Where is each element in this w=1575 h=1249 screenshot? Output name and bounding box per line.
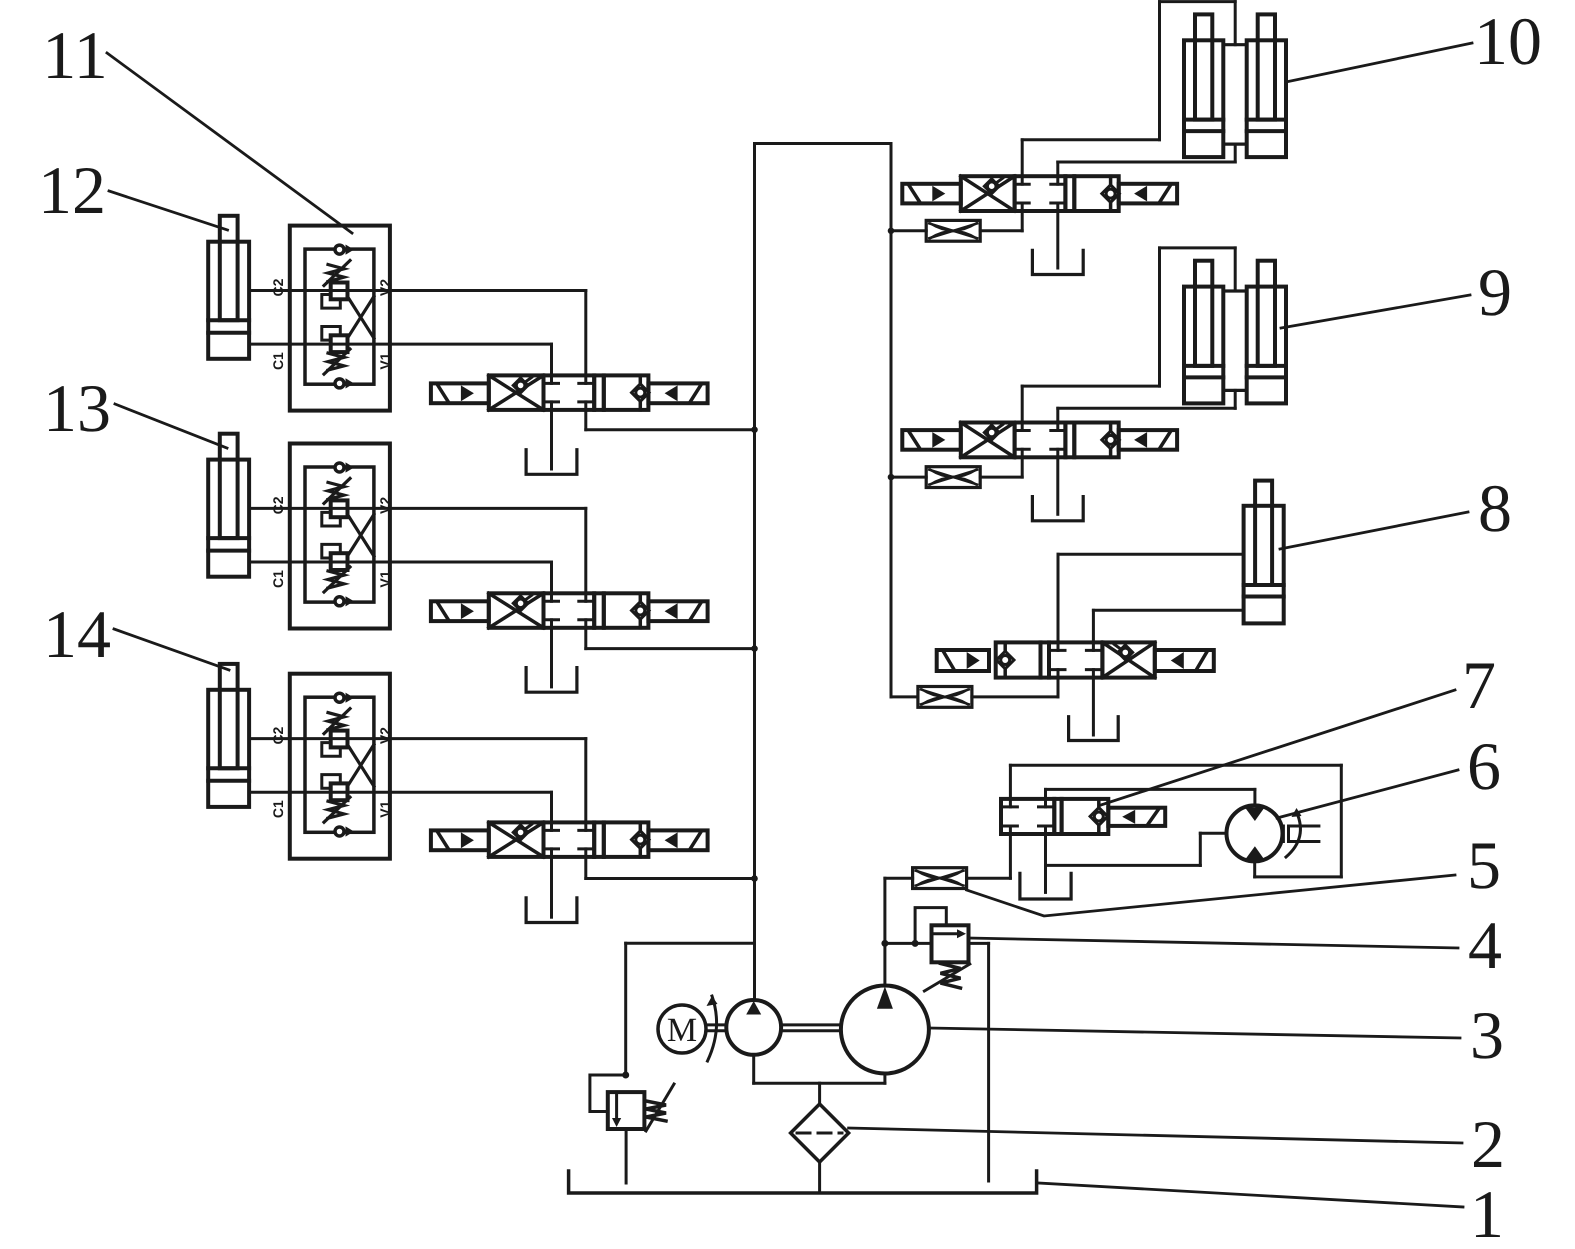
svg-text:4: 4 [1468,907,1502,983]
leader 8 [1280,512,1468,549]
throttle check valve (group 10) [926,220,980,241]
label 1 [1470,1176,1504,1249]
system relief valve (left) [590,1072,674,1183]
solenoid valve (label 7) [1001,799,1165,834]
svg-text:C2: C2 [270,726,286,744]
line B valve 8 to cylinder [1093,610,1243,642]
solenoid directional valve (group 9) [902,423,1177,458]
valve 9 tank drop [1056,457,1059,514]
V2 line to valve (group 14) [390,739,586,823]
leader 13 [115,404,227,448]
svg-text:V1: V1 [377,800,393,817]
line A valve 8 to cylinder [1058,554,1244,642]
pump P2 (label 3) [841,986,929,1074]
V2 line to valve (group 13) [390,508,586,593]
label 2 [1471,1106,1505,1182]
line A valve-to-cylinders (group 10) [1022,2,1235,177]
relief return line [969,943,989,1181]
block internal C2 line [290,289,390,292]
svg-text:V2: V2 [377,279,393,296]
svg-text:C1: C1 [270,800,286,818]
valve 8 tank symbol [1069,717,1119,741]
svg-text:C1: C1 [270,570,286,588]
C2 line (group 13) [249,507,290,510]
V1 line to valve (group 13) [390,562,552,593]
valve tank symbol (group 13) [526,668,577,693]
counterbalance valve block (group 14) [270,674,393,859]
motor loop frame [1010,765,1341,877]
double hoist cylinder (label 10) [1184,14,1286,157]
C1 line (group 14) [249,791,290,794]
svg-text:8: 8 [1478,470,1512,546]
motor drain line [1046,833,1227,865]
leader 11 [107,53,352,233]
valve 7 tank symbol [1020,873,1071,899]
solenoid directional valve (group 10) [902,176,1177,211]
C2 line (group 14) [249,737,290,740]
valve 8 tank drop [1092,678,1095,735]
solenoid directional valve (group 13) [431,593,708,628]
label 8 [1478,470,1512,546]
leader 4 [969,938,1459,948]
cylinder (group 14) [208,664,249,807]
leader 14 [114,629,229,670]
manifold line with throttle (group 9) [891,457,1022,477]
V2 line to valve (group 11/12) [390,291,586,376]
throttle check valve (group 8) [918,687,972,708]
svg-text:13: 13 [43,370,111,446]
label 5 [1467,827,1501,903]
svg-text:M: M [667,1012,697,1049]
svg-text:5: 5 [1467,827,1501,903]
valve to manifold line (group 13) [586,628,755,649]
label 12 [38,152,106,228]
counterbalance valve block (group 11/12) [270,226,393,411]
C2 line (group 11/12) [249,289,290,292]
leader 12 [109,191,228,230]
manifold line with throttle (group 10) [891,211,1022,231]
P2 delivery line with throttle to valve 7 [885,834,1011,878]
block internal C2 line [290,507,390,510]
throttle check valve (motor line, label 5) [913,868,967,889]
manifold line with throttle (group 8) [891,678,1058,697]
svg-text:V1: V1 [377,570,393,587]
label 3 [1470,997,1504,1073]
svg-text:7: 7 [1462,647,1496,723]
svg-text:11: 11 [42,17,107,93]
svg-text:C2: C2 [270,496,286,514]
V1 line to valve (group 14) [390,792,552,822]
valve tank symbol (group 14) [526,898,577,923]
valve to manifold line (group 14) [586,857,755,879]
pump suction piping [754,1055,885,1104]
C1 line (group 11/12) [249,343,290,346]
valve tank drop (group 13) [550,628,553,687]
counterbalance valve block (group 13) [270,444,393,629]
svg-text:C1: C1 [270,352,286,370]
relief valve (label 4) [912,908,970,991]
valve 10 tank symbol [1032,250,1083,274]
cylinder (group 13) [208,434,249,577]
valve tank drop (group 11/12) [550,410,553,469]
leader 3 [929,1028,1460,1038]
solenoid directional valve (group 14) [431,822,708,857]
valve 7 tank drop [1044,834,1047,892]
block internal C2 line [290,737,390,740]
leader 9 [1281,295,1470,328]
svg-text:3: 3 [1470,997,1504,1073]
valve 9 tank symbol [1032,497,1083,521]
block internal C1 line [290,343,390,346]
drive shaft [706,1025,841,1031]
motor rotation arrow [707,996,718,1061]
leader 1 [1039,1183,1463,1207]
double hoist cylinder (label 9) [1184,261,1286,404]
oil tank (label 1) [569,1171,1037,1193]
line B valve-to-cylinders (group 10) [1058,144,1235,176]
valve tank symbol (group 11/12) [526,450,577,475]
label 7 [1462,647,1496,723]
pressure line P2 to relief 4 [882,878,932,985]
label 14 [43,596,111,672]
pump P1 [726,1000,781,1055]
leader 6 [1277,770,1458,818]
label 6 [1467,728,1501,804]
line B valve-to-cylinders (group 9) [1058,390,1235,422]
svg-text:V2: V2 [377,727,393,744]
svg-text:14: 14 [43,596,111,672]
motor case lines [1283,808,1319,857]
svg-text:V2: V2 [377,497,393,514]
solenoid directional valve (group 11/12) [431,375,708,410]
leader 5 [967,875,1455,916]
label 10 [1474,3,1542,79]
electric motor M1 [658,1005,706,1053]
svg-text:12: 12 [38,152,106,228]
svg-text:1: 1 [1470,1176,1504,1249]
block internal C1 line [290,791,390,794]
hydraulic motor (label 6) [1227,805,1283,861]
label 11 [42,17,107,93]
motor bottom port line [1253,861,1256,877]
valve to manifold line (group 11/12) [586,410,755,430]
svg-text:10: 10 [1474,3,1542,79]
cylinder (group 11/12) [208,216,249,359]
valve 7 to motor line [1046,789,1255,805]
leader 2 [849,1128,1462,1143]
svg-text:9: 9 [1478,254,1512,330]
svg-text:V1: V1 [377,352,393,369]
valve 7 port A line [1009,765,1012,799]
label 13 [43,370,111,446]
svg-text:2: 2 [1471,1106,1505,1182]
label 4 [1468,907,1502,983]
svg-text:6: 6 [1467,728,1501,804]
suction filter (label 2) [791,1104,849,1191]
valve tank drop (group 14) [550,857,553,917]
junction dots [752,228,894,881]
manifold block P line [755,144,892,1001]
solenoid directional valve (group 8) [937,642,1214,677]
V1 line to valve (group 11/12) [390,344,552,375]
pump unit frame line [626,943,755,1075]
svg-text:C2: C2 [270,278,286,296]
block internal C1 line [290,561,390,564]
throttle check valve (group 9) [926,467,980,488]
leader 10 [1286,43,1472,82]
cylinder (label 8) [1244,481,1284,624]
label 9 [1478,254,1512,330]
C1 line (group 13) [249,561,290,564]
valve 10 tank drop [1056,211,1059,268]
leader 7 [1101,690,1455,805]
line A valve-to-cylinders (group 9) [1022,248,1235,423]
